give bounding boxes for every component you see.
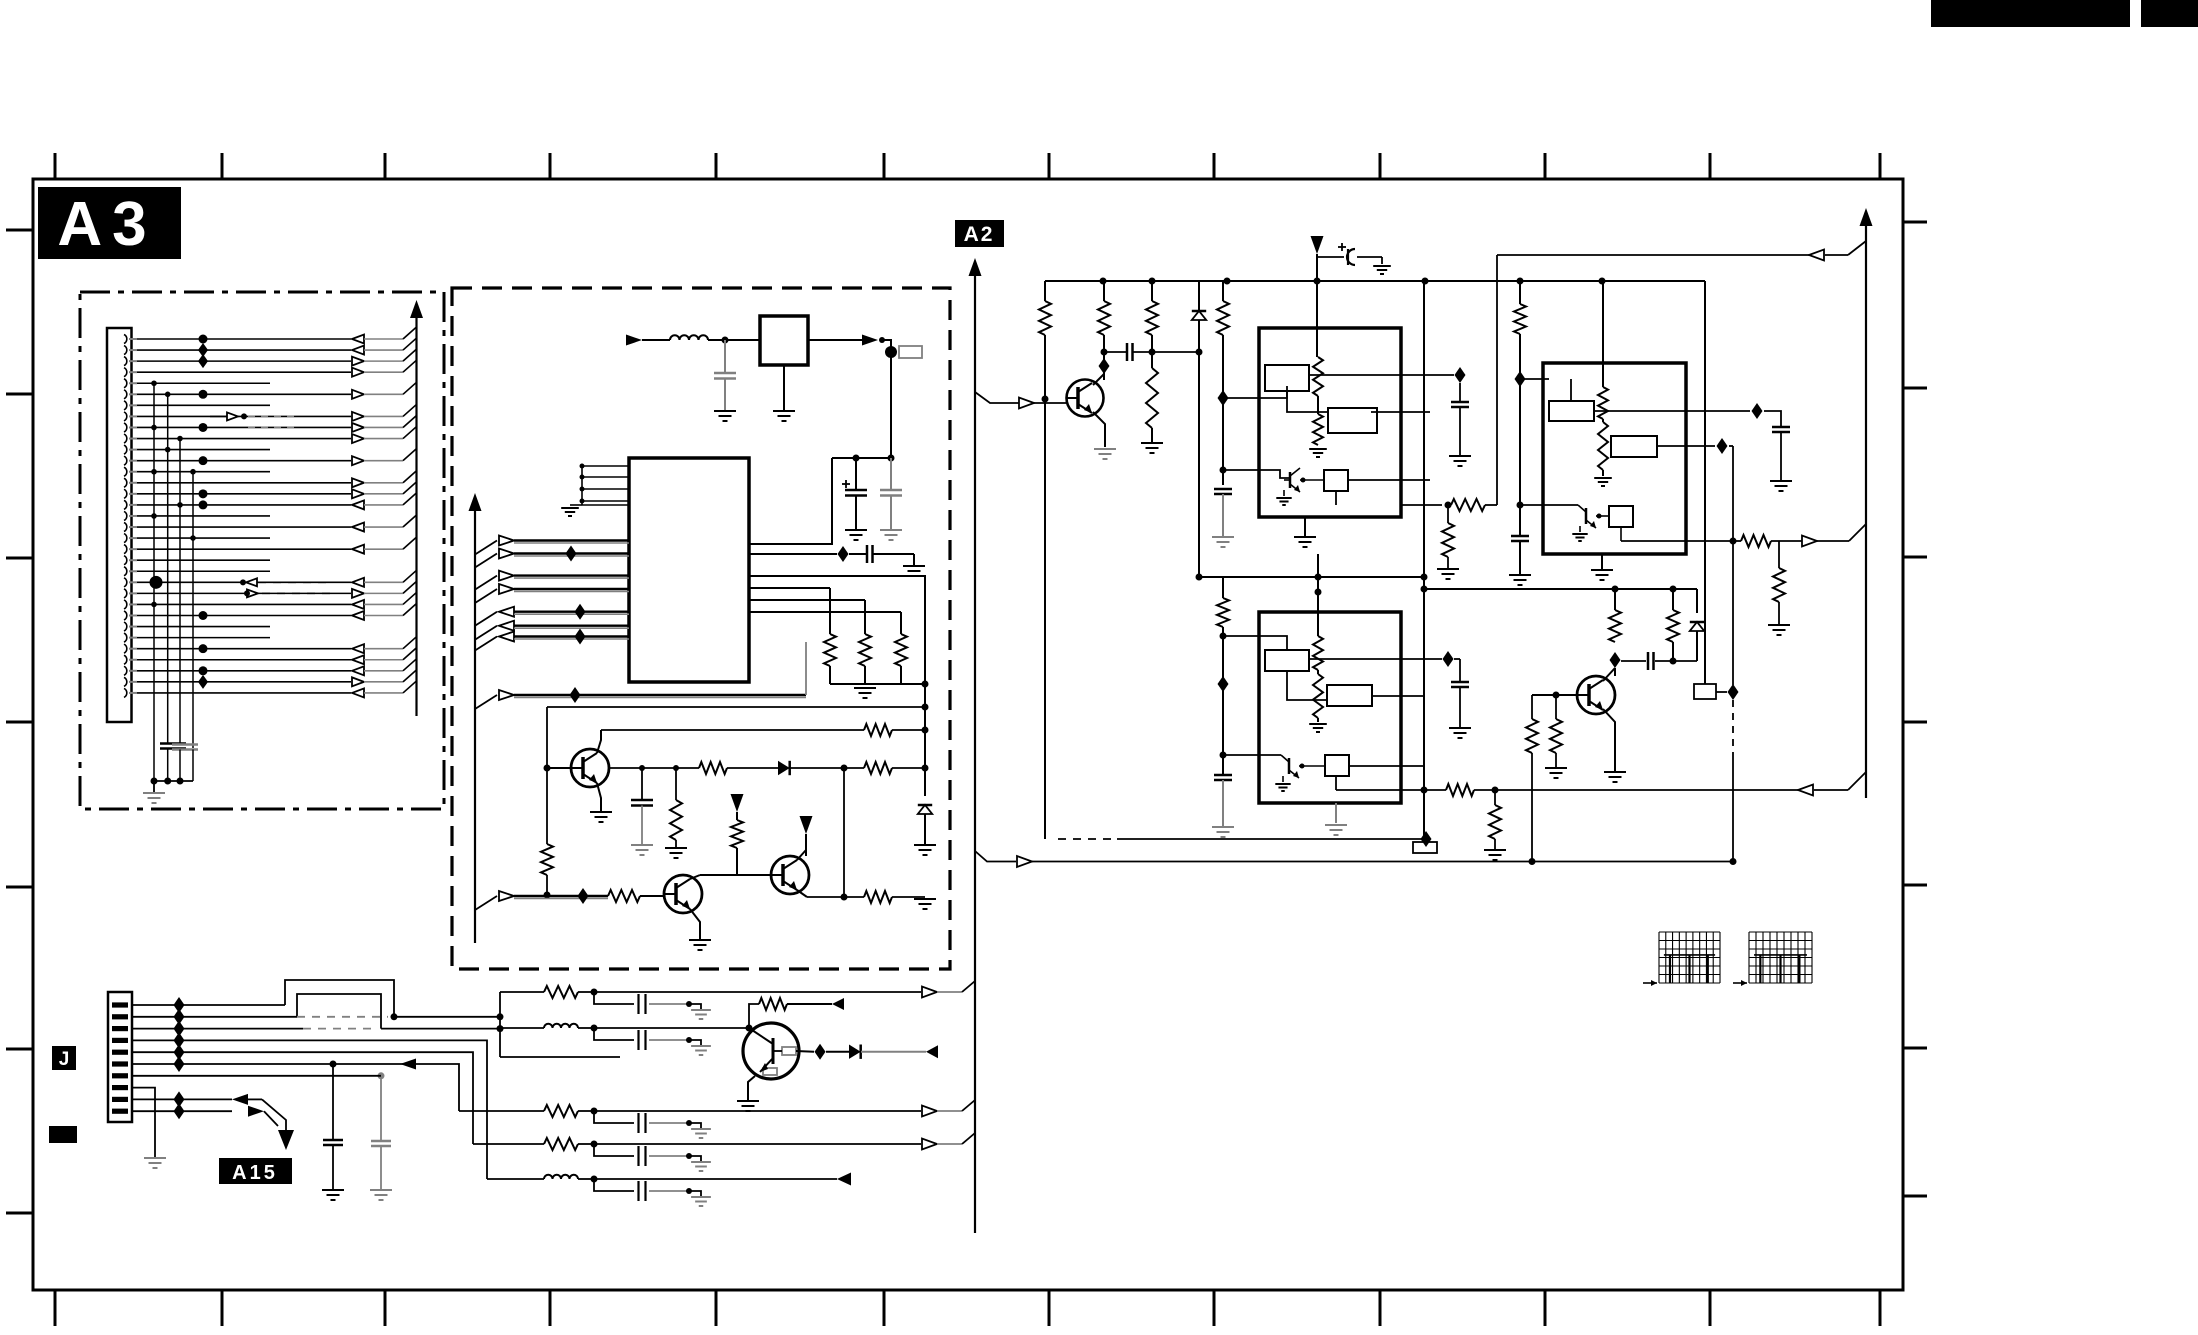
svg-text:A3: A3 xyxy=(57,190,156,259)
svg-text:J: J xyxy=(59,1049,70,1070)
svg-text:A15: A15 xyxy=(232,1162,278,1184)
svg-text:A2: A2 xyxy=(964,223,995,246)
